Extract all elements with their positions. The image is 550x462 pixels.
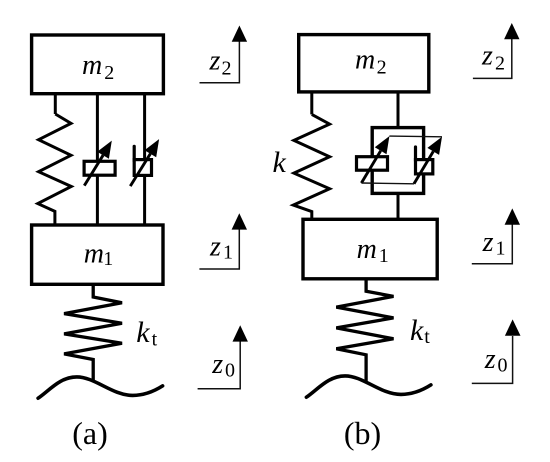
svg-text:m: m — [82, 50, 102, 81]
wire: m2 to parallel frame (b) — [397, 92, 400, 129]
mass m2 box (a) — [32, 35, 164, 94]
svg-text:z: z — [211, 349, 223, 380]
ground wave (a) — [38, 377, 163, 398]
svg-text:k: k — [410, 314, 424, 347]
svg-text:2: 2 — [377, 57, 387, 79]
svg-text:2: 2 — [495, 52, 505, 74]
mass m1 box (a) — [32, 225, 163, 284]
svg-text:z: z — [209, 46, 221, 77]
svg-text:z: z — [482, 227, 494, 258]
mass m2 box (b) — [299, 35, 429, 92]
wire: right damper line (a) — [143, 94, 146, 225]
variable damper 2 pin (a, nub) — [133, 146, 136, 161]
variable damper 2 arrow (a) — [130, 154, 150, 186]
svg-text:t: t — [424, 326, 430, 348]
wire: middle damper line (a) — [96, 94, 99, 225]
svg-text:(a): (a) — [72, 415, 108, 451]
spring k (b) — [293, 114, 329, 219]
variable damper 3 arrow (b) — [361, 151, 380, 183]
datum arrow z2 (a) — [200, 40, 240, 83]
variable damper 2 body (a, square box) — [134, 160, 151, 176]
mass m1 box (b) — [303, 219, 437, 278]
variable damper 3 body (b, horizontal box) — [357, 157, 388, 171]
variable damper 4 body (b, square box) — [416, 160, 433, 174]
wire: spring top stub (a) — [54, 94, 57, 114]
datum arrow z1 (b) — [472, 223, 513, 264]
variable damper 1 arrow (a) — [84, 155, 103, 185]
parallel frame loop (b) — [372, 128, 423, 194]
variable damper 4 arrow (b) — [414, 151, 433, 183]
control coupling link bottom (b, thin) — [361, 182, 414, 185]
svg-text:1: 1 — [379, 245, 389, 267]
datum arrow z0 (a) — [198, 341, 241, 389]
variable damper 1 body (a, horizontal box) — [84, 161, 115, 175]
datum arrow z2 (b) — [473, 36, 512, 78]
svg-text:z: z — [481, 41, 493, 72]
svg-text:1: 1 — [496, 237, 506, 259]
svg-text:2: 2 — [104, 62, 114, 84]
svg-text:m: m — [357, 234, 377, 265]
wire: parallel frame to m1 (b) — [397, 193, 400, 219]
spring (sprung-mass spring, a) — [38, 114, 72, 225]
tire spring kt (b) — [336, 279, 393, 382]
svg-text:m: m — [84, 238, 104, 269]
svg-text:1: 1 — [223, 242, 233, 264]
svg-text:k: k — [273, 146, 287, 179]
datum arrow z0 (b) — [472, 336, 513, 383]
svg-text:m: m — [355, 45, 375, 76]
svg-text:2: 2 — [222, 57, 232, 79]
svg-text:z: z — [484, 344, 496, 375]
variable damper 4 pin (b, nub) — [414, 147, 417, 161]
svg-text:(b): (b) — [344, 415, 381, 451]
svg-text:0: 0 — [498, 354, 508, 376]
svg-text:1: 1 — [103, 248, 113, 270]
svg-text:0: 0 — [225, 359, 235, 381]
control coupling link top (b, thin) — [389, 135, 442, 138]
ground wave (b) — [306, 376, 431, 397]
wire: spring top stub (b) — [310, 92, 313, 114]
svg-text:z: z — [209, 232, 221, 263]
tire spring kt (a) — [64, 284, 122, 380]
svg-text:t: t — [152, 329, 158, 351]
svg-text:k: k — [136, 316, 150, 349]
datum arrow z1 (a) — [199, 228, 239, 269]
